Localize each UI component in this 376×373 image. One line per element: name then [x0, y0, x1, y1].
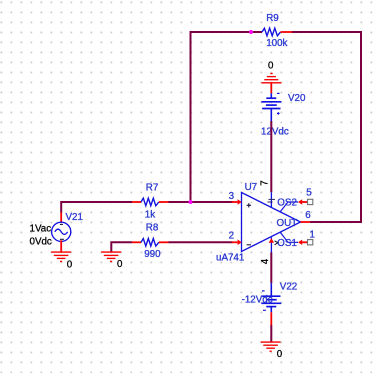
svg-text:OUT: OUT [277, 218, 298, 229]
svg-text:R8: R8 [146, 223, 159, 234]
R9 zigzag body [262, 28, 281, 36]
svg-text:V22: V22 [280, 281, 297, 292]
V21 circle body [52, 222, 71, 241]
resistor R9 [262, 13, 292, 49]
svg-text:V21: V21 [66, 212, 83, 223]
wire R7 to pin3 [169, 201, 233, 203]
wire V22 to ground [270, 325, 272, 342]
svg-text:OS1: OS1 [277, 238, 297, 249]
OUT pin 6 red stub [301, 221, 311, 223]
V20 plates [266, 97, 276, 99]
OS2 pin stub [280, 202, 298, 212]
svg-text:5: 5 [306, 188, 312, 199]
R8 left pin [132, 241, 141, 243]
wire V20 to opamp pin7 [270, 121, 272, 192]
V20 minus marker [277, 92, 280, 94]
ground 0 at R8 input [101, 242, 132, 270]
wire top horizontal to R9 [190, 31, 263, 33]
ground 0 below V21 [51, 252, 73, 270]
pin 2 red arrow [232, 241, 238, 243]
pin 4 red arrow [269, 238, 274, 243]
ground bars [101, 251, 121, 253]
resistor R7 1k [132, 183, 169, 221]
junction dot at pin3 net [189, 200, 193, 204]
pin 1 open square [308, 240, 313, 245]
R8 zigzag body [141, 239, 159, 247]
svg-text:0: 0 [67, 260, 73, 271]
op-amp U7 uA741 [216, 180, 315, 264]
ground 0 above V20 (flipped) [261, 61, 281, 94]
ground 0 below V22 [261, 342, 283, 360]
pin 7 stub [270, 192, 272, 208]
svg-text:12Vdc: 12Vdc [261, 126, 289, 137]
wire V21 top to R7 net [61, 202, 132, 213]
wire pin4 to V22 [270, 253, 272, 284]
V21 sine wave [55, 229, 68, 234]
R7 right pin [159, 201, 169, 203]
junction dot at R9 left [249, 30, 253, 34]
svg-text:1k: 1k [145, 210, 155, 221]
wire output horizontal [310, 221, 362, 223]
svg-text:0Vdc: 0Vdc [30, 237, 52, 248]
OS1 red arrow [298, 240, 302, 245]
svg-text:V20: V20 [288, 93, 306, 104]
ground bars [270, 73, 272, 75]
svg-text:OS2: OS2 [277, 198, 297, 209]
pin 3 red arrow [232, 201, 238, 203]
resistor R8 990 [132, 223, 169, 261]
wire ground to R8 [111, 242, 132, 252]
svg-text:R9: R9 [266, 13, 279, 24]
R7 zigzag body [141, 198, 159, 206]
R8 right pin [159, 241, 169, 243]
svg-text:U7: U7 [245, 182, 258, 193]
wire R9 right to top-right corner [292, 31, 361, 33]
OS1 pin stub [280, 232, 298, 242]
svg-text:R7: R7 [146, 183, 159, 194]
wire right vertical [360, 31, 362, 222]
battery V22 -12Vdc [242, 281, 298, 312]
minus marker pin2 [247, 244, 251, 246]
svg-text:100k: 100k [266, 38, 287, 49]
svg-text:6: 6 [305, 210, 311, 221]
pin 4 stub [270, 237, 272, 252]
source V21 [30, 202, 133, 252]
pin 5 open square [308, 199, 313, 204]
svg-text:7: 7 [260, 180, 271, 185]
svg-text:0: 0 [117, 259, 123, 270]
svg-text:0: 0 [277, 349, 283, 360]
wire feedback left vertical [190, 32, 192, 202]
svg-text:4: 4 [260, 258, 271, 264]
V22 plates [262, 295, 280, 297]
R7 left pin [132, 201, 141, 203]
battery V20 12Vdc [261, 93, 306, 138]
plus marker pin3 [247, 203, 251, 207]
V20 plus marker [277, 112, 280, 115]
R9 right pin [281, 31, 293, 33]
U7 triangle body [242, 193, 301, 252]
red pin V22 bottom [270, 312, 272, 325]
svg-text:1: 1 [310, 229, 315, 240]
svg-text:uA741: uA741 [216, 253, 244, 264]
svg-text:0: 0 [268, 61, 274, 72]
OS1 tick [275, 241, 278, 245]
svg-text:-12Vdc: -12Vdc [242, 295, 273, 306]
svg-text:1Vac: 1Vac [30, 223, 52, 234]
svg-text:2: 2 [229, 231, 234, 242]
OS2 red arrow [298, 199, 302, 204]
V21 polarity marks [60, 223, 63, 225]
wire R8 to pin2 [169, 241, 233, 243]
svg-text:3: 3 [229, 191, 235, 202]
V21 top pin [60, 212, 62, 222]
V21 bottom pin [60, 240, 62, 252]
V22 minus marker [262, 290, 265, 292]
svg-text:990: 990 [144, 249, 161, 260]
